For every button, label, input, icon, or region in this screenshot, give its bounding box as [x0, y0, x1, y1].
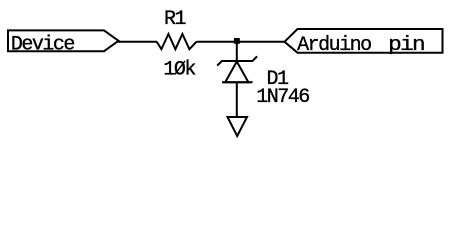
svg-text:1N746: 1N746 [256, 86, 309, 109]
wire zener to ground [236, 82, 238, 117]
zener diode D1 triangle [225, 62, 248, 83]
wire junction down to zener [236, 42, 238, 61]
svg-text:pin: pin [388, 34, 424, 57]
node Arduino pin flag [285, 29, 443, 53]
svg-text:R1: R1 [164, 8, 187, 31]
resistor R1 [157, 34, 197, 49]
wire from Device to R1 [118, 41, 158, 43]
ground [228, 117, 248, 136]
svg-text:1Øk: 1Øk [163, 58, 195, 81]
svg-text:Device: Device [11, 34, 75, 57]
wire from R1 to Arduino pin flag [197, 41, 285, 43]
node Device flag [8, 30, 119, 51]
svg-text:Arduino: Arduino [297, 34, 371, 57]
junction dot [234, 38, 240, 44]
zener diode D1 cathode bar [217, 56, 257, 65]
diode D1 anode base line [222, 81, 253, 83]
